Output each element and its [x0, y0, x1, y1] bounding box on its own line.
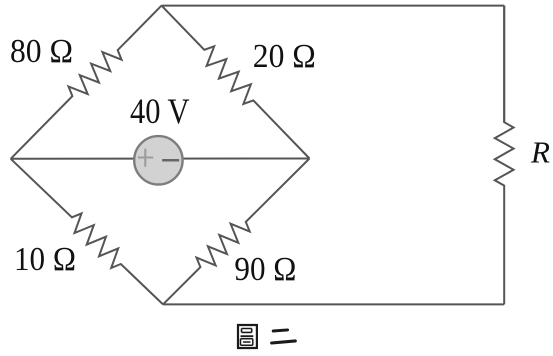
resistor 20 ohm (top-right bridge arm)	[162, 6, 310, 159]
wire: top node to right branch	[162, 5, 505, 7]
svg-text:80 Ω: 80 Ω	[10, 33, 73, 70]
resistor 90 ohm (bottom-right bridge arm)	[163, 159, 310, 305]
svg-text:20 Ω: 20 Ω	[253, 38, 316, 75]
resistor R (right branch)	[495, 6, 514, 305]
voltage source minus terminal	[162, 159, 179, 162]
svg-text:R: R	[530, 135, 550, 170]
svg-text:40 V: 40 V	[130, 91, 190, 131]
wire: bottom node to right branch	[163, 303, 504, 305]
voltage source plus terminal	[138, 149, 153, 167]
svg-text:10 Ω: 10 Ω	[14, 241, 76, 278]
caption: figure-two character tu (box glyph)	[237, 324, 258, 349]
svg-text:90 Ω: 90 Ω	[234, 251, 296, 288]
resistor 80 ohm (left-top bridge arm)	[11, 6, 162, 159]
caption: figure-two character er (two strokes)	[272, 330, 296, 343]
wire: middle branch left node to right node	[11, 158, 310, 160]
resistor 10 ohm (left-bottom bridge arm)	[11, 159, 163, 305]
wire: right branch upper segment	[503, 6, 505, 123]
voltage source 40V body	[134, 136, 182, 184]
